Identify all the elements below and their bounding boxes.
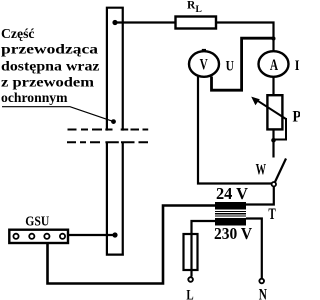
svg-text:dostępna wraz: dostępna wraz bbox=[1, 60, 100, 75]
svg-text:ochronnym: ochronnym bbox=[1, 91, 68, 106]
svg-text:przewodząca: przewodząca bbox=[1, 43, 98, 58]
transformer core bbox=[215, 212, 246, 216]
rheostat P body bbox=[267, 95, 282, 129]
annotation text: Część przewodząca dostępna wraz z przewodem ochronnym bbox=[1, 27, 100, 106]
GSU box bbox=[9, 230, 68, 243]
wire: switch pivot down to transformer secondary right lead bbox=[246, 187, 274, 205]
fuse wire through body bbox=[190, 234, 192, 270]
switch W blade bbox=[275, 159, 287, 184]
conductive part bar upper section bbox=[107, 8, 123, 131]
node on bar (GSU connection) bbox=[112, 232, 117, 237]
fuse body bbox=[184, 234, 198, 270]
wire: rheostat bottom to switch fixed contact bbox=[272, 130, 274, 158]
rheostat wiper arrow bbox=[251, 97, 286, 119]
voltmeter V top stub bbox=[202, 49, 206, 52]
wire: voltmeter bottom lead down to switch node bbox=[198, 77, 272, 184]
svg-text:V: V bbox=[200, 57, 209, 74]
svg-text:I: I bbox=[295, 58, 300, 74]
svg-text:A: A bbox=[270, 57, 279, 74]
ammeter A bbox=[259, 51, 289, 77]
wire: resistor RL to top right corner, down to ammeter bbox=[216, 23, 274, 52]
transformer T primary winding 230V bbox=[215, 218, 246, 226]
svg-text:P: P bbox=[293, 109, 301, 126]
resistor RL body bbox=[176, 17, 217, 29]
terminal N bbox=[259, 279, 264, 284]
wire: 230V right lead to terminal N bbox=[246, 219, 262, 279]
transformer T secondary winding 24V bbox=[215, 202, 246, 210]
wire: 230V left lead to fuse bbox=[192, 221, 216, 277]
svg-text:N: N bbox=[259, 287, 267, 300]
break dashed line lower bbox=[67, 141, 148, 143]
svg-text:24 V: 24 V bbox=[216, 184, 248, 203]
svg-text:L: L bbox=[196, 5, 202, 15]
svg-text:GSU: GSU bbox=[25, 215, 49, 230]
svg-text:T: T bbox=[268, 206, 276, 223]
conductive part bar lower section bbox=[106, 142, 124, 254]
voltmeter V bbox=[189, 51, 219, 77]
break dashed line upper bbox=[68, 129, 149, 131]
wire: wiper to bottom terminal junction bbox=[274, 118, 287, 140]
svg-text:Część: Część bbox=[1, 27, 35, 42]
svg-text:W: W bbox=[256, 161, 267, 178]
label RL bbox=[187, 0, 202, 15]
svg-text:U: U bbox=[226, 59, 235, 75]
terminal L bbox=[188, 277, 193, 282]
node on bar top (PE connection) bbox=[112, 20, 117, 25]
junction node below rheostat bbox=[271, 138, 276, 143]
svg-text:230 V: 230 V bbox=[214, 224, 252, 243]
leader line from annotation to conductive part bbox=[2, 107, 114, 122]
switch W pivot bbox=[272, 182, 276, 186]
wire: voltmeter branch bbox=[212, 38, 274, 90]
leader dot on conductive part bbox=[111, 119, 116, 124]
wire: bar node to resistor RL bbox=[115, 21, 176, 23]
svg-text:z przewodem: z przewodem bbox=[1, 76, 94, 91]
wire: 24V left lead down and along bottom to GSU bbox=[48, 206, 216, 284]
svg-text:L: L bbox=[186, 288, 193, 300]
junction node above ammeter bbox=[272, 37, 276, 41]
GSU terminals bbox=[13, 234, 65, 239]
wire: GSU to bar node bbox=[68, 234, 115, 236]
wire: ammeter to rheostat P bbox=[272, 77, 274, 95]
